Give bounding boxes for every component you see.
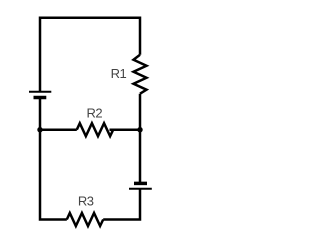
svg-text:R2: R2 <box>86 105 102 120</box>
svg-text:R3: R3 <box>78 194 94 209</box>
svg-text:R1: R1 <box>111 66 127 81</box>
